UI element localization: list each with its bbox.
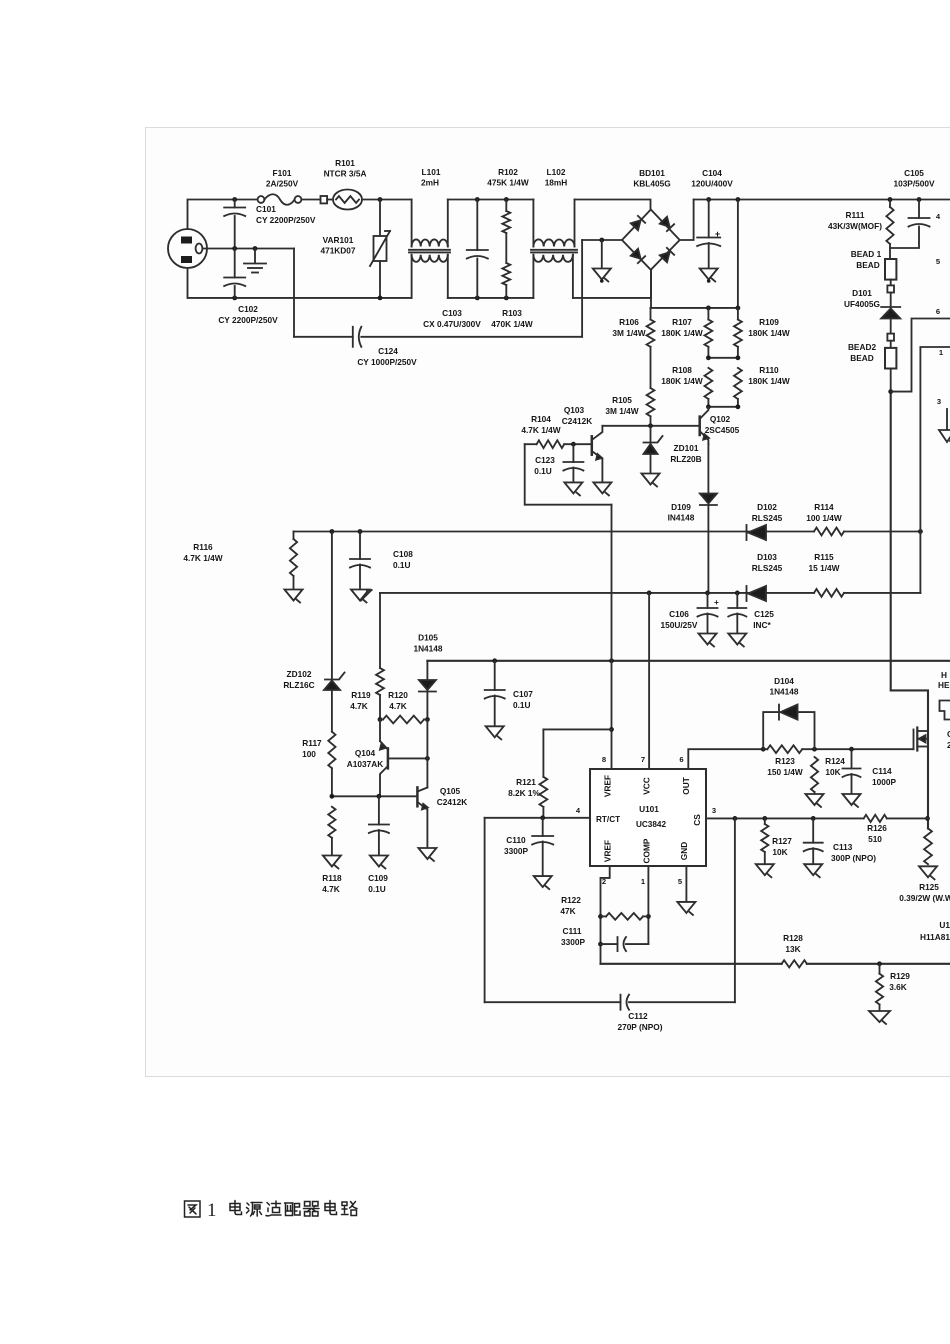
capacitor C109: [378, 796, 380, 824]
svg-text:1N4148: 1N4148: [413, 644, 442, 654]
svg-text:C124: C124: [378, 346, 398, 356]
capacitor C104: [708, 200, 710, 238]
svg-text:HE: HE: [938, 680, 950, 690]
wire VREF pin2 loop: [601, 866, 610, 964]
capacitor C108: [359, 532, 361, 560]
svg-text:VAR101: VAR101: [323, 235, 354, 245]
ferrite bead BEAD2: [890, 341, 892, 348]
svg-text:8.2K 1%: 8.2K 1%: [508, 788, 540, 798]
svg-text:R120: R120: [388, 690, 408, 700]
svg-text:0.1U: 0.1U: [513, 700, 531, 710]
wire plug line mid: [203, 248, 295, 250]
resistor R102: [505, 200, 507, 212]
svg-text:1000P: 1000P: [872, 777, 896, 787]
svg-text:8: 8: [602, 755, 606, 764]
caption: 图 1 电源适配器电路: [185, 1201, 201, 1217]
resistor R111: [889, 200, 891, 208]
svg-text:10K: 10K: [772, 847, 787, 857]
svg-text:Q104: Q104: [355, 748, 376, 758]
svg-text:GND: GND: [679, 842, 689, 860]
transistor Q103: [591, 436, 594, 454]
svg-text:CY 2200P/250V: CY 2200P/250V: [256, 215, 316, 225]
svg-text:C114: C114: [872, 766, 892, 776]
capacitor C101: [234, 200, 236, 208]
bridge diode 3: [631, 249, 641, 259]
wire R106 row: [651, 307, 738, 309]
node C101 bottom: [232, 246, 237, 251]
svg-text:6: 6: [936, 307, 940, 316]
svg-text:D102: D102: [757, 502, 777, 512]
svg-text:C111: C111: [563, 926, 582, 936]
svg-text:BD101: BD101: [639, 168, 665, 178]
svg-text:D103: D103: [757, 552, 777, 562]
svg-text:150 1/4W: 150 1/4W: [767, 767, 803, 777]
svg-text:2SC4505: 2SC4505: [705, 425, 740, 435]
wire COMP pin: [647, 866, 649, 944]
svg-text:3: 3: [712, 806, 716, 815]
wire GND pin: [685, 866, 687, 902]
svg-text:7: 7: [641, 755, 645, 764]
bridge rectifier BD101: [622, 210, 680, 270]
bridge diode 2: [660, 217, 670, 227]
diode D103: [748, 586, 766, 601]
stray mark: [361, 590, 372, 601]
svg-text:470K 1/4W: 470K 1/4W: [491, 319, 533, 329]
wire RT/CT row: [485, 817, 590, 819]
wire R107-R109 mid row: [708, 357, 738, 359]
wire FB row: [601, 963, 950, 965]
capacitor C111: [601, 943, 618, 945]
IC U101 box: [590, 769, 706, 866]
capacitor C107: [494, 661, 496, 690]
resistor R117: [328, 732, 335, 769]
svg-text:4.7K 1/4W: 4.7K 1/4W: [183, 553, 222, 563]
svg-text:C125: C125: [754, 609, 774, 619]
capacitor C110: [542, 818, 544, 836]
wire VCC pin line: [648, 593, 650, 769]
svg-text:3: 3: [937, 397, 941, 406]
capacitor C103: [476, 200, 478, 251]
resistor R118: [328, 807, 335, 838]
scanned schematic area: [146, 128, 950, 1077]
earth ground: [253, 246, 258, 251]
svg-text:R107: R107: [672, 317, 692, 327]
svg-text:UF4005G: UF4005G: [844, 299, 880, 309]
svg-text:CS: CS: [692, 814, 702, 826]
svg-text:RLZ20B: RLZ20B: [670, 454, 701, 464]
svg-text:2mH: 2mH: [421, 178, 439, 188]
svg-text:180K 1/4W: 180K 1/4W: [661, 376, 703, 386]
svg-text:+: +: [715, 229, 720, 239]
wire BEAD rail: [891, 392, 928, 829]
svg-text:4.7K: 4.7K: [322, 884, 340, 894]
svg-text:H11A81: H11A81: [920, 932, 950, 942]
svg-text:C107: C107: [513, 689, 533, 699]
wire R101 to L101: [362, 199, 412, 201]
capacitor C106: [707, 593, 709, 608]
svg-text:C105: C105: [904, 168, 924, 178]
svg-text:CX 0.47U/300V: CX 0.47U/300V: [423, 319, 481, 329]
wire plug bottom: [188, 268, 412, 298]
resistor R115: [814, 589, 844, 597]
svg-text:R123: R123: [775, 756, 795, 766]
svg-text:13K: 13K: [785, 944, 800, 954]
wire pin6 link: [891, 319, 950, 392]
resistor R122: [601, 915, 607, 917]
wire bridge left: [582, 239, 622, 241]
svg-text:1: 1: [207, 1200, 217, 1221]
svg-text:R124: R124: [825, 756, 845, 766]
svg-text:L102: L102: [547, 167, 566, 177]
svg-text:3M 1/4W: 3M 1/4W: [612, 328, 645, 338]
svg-text:0.1U: 0.1U: [534, 466, 552, 476]
svg-text:180K 1/4W: 180K 1/4W: [748, 328, 790, 338]
capacitor C102: [232, 296, 237, 301]
svg-text:R116: R116: [193, 542, 213, 552]
svg-text:R114: R114: [814, 502, 834, 512]
fuse F101: [258, 196, 265, 203]
node C101 top: [232, 197, 237, 202]
svg-text:180K 1/4W: 180K 1/4W: [661, 328, 703, 338]
svg-text:+: +: [714, 598, 719, 607]
pad square 1: [890, 280, 892, 286]
svg-text:100 1/4W: 100 1/4W: [806, 513, 842, 523]
svg-text:Q105: Q105: [440, 786, 461, 796]
wire Q102 emitter: [707, 444, 709, 493]
wire OUT row: [763, 748, 767, 750]
svg-text:C104: C104: [702, 168, 722, 178]
svg-text:2A/250V: 2A/250V: [266, 179, 299, 189]
diode D105: [426, 661, 428, 681]
svg-text:RLZ16C: RLZ16C: [283, 680, 314, 690]
svg-text:BEAD: BEAD: [850, 353, 874, 363]
capacitor C105: [918, 200, 920, 219]
diode D102: [748, 525, 766, 540]
svg-text:6: 6: [679, 755, 683, 764]
resistor R116: [293, 532, 295, 540]
resistor R126: [864, 815, 887, 822]
wire R121 feed: [543, 728, 611, 730]
svg-text:ZD101: ZD101: [674, 443, 699, 453]
svg-text:R110: R110: [759, 365, 779, 375]
resistor R103: [502, 263, 510, 285]
svg-text:R128: R128: [783, 933, 803, 943]
resistor R107: [707, 308, 709, 320]
wire Q103 base row: [602, 425, 699, 427]
ground bridge left: [599, 238, 604, 243]
svg-text:C109: C109: [368, 873, 388, 883]
svg-text:R125: R125: [919, 882, 939, 892]
svg-text:C108: C108: [393, 549, 413, 559]
svg-text:U101: U101: [639, 804, 659, 814]
resistor R125: [925, 816, 930, 821]
wire bridge bottom to R106 row: [650, 270, 652, 308]
svg-text:BEAD 1: BEAD 1: [851, 249, 882, 259]
svg-text:D101: D101: [852, 288, 872, 298]
wire C112 right leg: [734, 818, 736, 1002]
svg-text:Q103: Q103: [564, 405, 585, 415]
resistor R110: [734, 368, 742, 399]
svg-text:C113: C113: [833, 842, 853, 852]
svg-text:C103: C103: [442, 308, 462, 318]
varistor VAR101: [379, 200, 381, 237]
svg-text:OUT: OUT: [681, 777, 691, 795]
svg-text:R109: R109: [759, 317, 779, 327]
wire L102 to bridge bottom: [573, 270, 651, 298]
transistor Q102: [698, 417, 701, 435]
svg-text:4.7K: 4.7K: [350, 701, 368, 711]
wire R119 drop: [379, 593, 381, 668]
zener ZD102: [331, 532, 333, 679]
svg-text:0.1U: 0.1U: [368, 884, 386, 894]
capacitor C113: [812, 818, 814, 842]
wire bridge right to DC rail: [680, 200, 694, 241]
svg-text:F101: F101: [273, 168, 292, 178]
choke L102: [532, 200, 534, 247]
svg-text:VREF: VREF: [603, 840, 613, 862]
svg-text:10K: 10K: [825, 767, 840, 777]
svg-text:Q102: Q102: [710, 414, 731, 424]
resistor R119: [376, 668, 384, 695]
choke L101: [411, 200, 413, 247]
mosfet Q101: [913, 730, 915, 750]
resistor R120: [378, 717, 383, 722]
svg-text:INC*: INC*: [753, 620, 771, 630]
svg-text:D109: D109: [671, 502, 691, 512]
svg-text:3M 1/4W: 3M 1/4W: [605, 406, 638, 416]
pin 3 arrow: [946, 409, 948, 430]
resistor R105: [647, 388, 655, 416]
svg-text:150U/25V: 150U/25V: [661, 620, 698, 630]
thermistor R101: [321, 196, 328, 203]
svg-text:1N4148: 1N4148: [769, 687, 798, 697]
svg-text:120U/400V: 120U/400V: [691, 179, 733, 189]
wire C124 drop: [293, 249, 295, 337]
svg-text:100: 100: [302, 749, 316, 759]
svg-text:270P (NPO): 270P (NPO): [617, 1022, 662, 1032]
zener ZD101: [650, 426, 652, 443]
svg-text:RT/CT: RT/CT: [596, 815, 620, 824]
capacitor C112: [485, 1001, 621, 1003]
svg-text:RLS245: RLS245: [752, 513, 783, 523]
svg-text:103P/500V: 103P/500V: [893, 179, 935, 189]
svg-text:COMP: COMP: [642, 838, 652, 863]
wire VCC row 531: [294, 531, 815, 533]
wire D105 to Q105 collector: [426, 720, 428, 788]
svg-text:BEAD: BEAD: [856, 260, 880, 270]
wire plug top to fuse: [188, 200, 259, 230]
svg-text:R106: R106: [619, 317, 639, 327]
svg-text:475K 1/4W: 475K 1/4W: [487, 178, 529, 188]
svg-text:R108: R108: [672, 365, 692, 375]
resistor R114: [814, 528, 844, 536]
svg-text:BEAD2: BEAD2: [848, 342, 877, 352]
wire DC rail top: [694, 199, 950, 201]
svg-text:RLS245: RLS245: [752, 563, 783, 573]
capacitor C123: [572, 444, 574, 462]
svg-text:510: 510: [868, 834, 882, 844]
AC plug P101: [168, 229, 207, 268]
bridge diode 1: [631, 220, 641, 230]
svg-text:R103: R103: [502, 308, 522, 318]
capacitor C124: [294, 336, 353, 338]
svg-text:IN4148: IN4148: [668, 513, 695, 523]
svg-text:VREF: VREF: [603, 775, 613, 797]
svg-text:C112: C112: [628, 1011, 648, 1021]
svg-text:NTCR 3/5A: NTCR 3/5A: [324, 169, 367, 179]
svg-text:UC3842: UC3842: [636, 820, 666, 829]
svg-text:18mH: 18mH: [545, 178, 568, 188]
resistor R124: [811, 757, 818, 792]
wire L101 to C103 bottom: [448, 297, 534, 299]
svg-text:R126: R126: [867, 823, 887, 833]
svg-text:C101: C101: [256, 204, 276, 214]
svg-text:R129: R129: [890, 971, 910, 981]
svg-text:D104: D104: [774, 676, 794, 686]
svg-text:U1: U1: [939, 920, 950, 930]
bridge diode 4: [660, 252, 670, 262]
capacitor C114: [851, 749, 853, 768]
svg-text:15 1/4W: 15 1/4W: [809, 563, 840, 573]
resistor R106: [650, 308, 652, 320]
svg-text:0.1U: 0.1U: [393, 560, 411, 570]
wire R104 loop to VREF line: [525, 444, 612, 505]
svg-text:0.39/2W (W.W: 0.39/2W (W.W: [899, 893, 950, 903]
svg-text:3300P: 3300P: [561, 937, 585, 947]
resistor R109: [737, 308, 739, 320]
svg-text:C110: C110: [506, 835, 526, 845]
svg-text:R101: R101: [335, 158, 355, 168]
svg-text:VCC: VCC: [642, 777, 652, 795]
svg-text:D105: D105: [418, 633, 438, 643]
resistor R128: [782, 960, 807, 967]
transistor Q104: [379, 720, 381, 742]
svg-text:R119: R119: [351, 690, 371, 700]
resistor R121: [542, 729, 544, 776]
svg-text:R127: R127: [772, 836, 792, 846]
wire fuse to R101: [301, 199, 320, 201]
svg-text:R115: R115: [814, 552, 834, 562]
wire C124 to bridge ground: [581, 240, 583, 337]
svg-text:3300P: 3300P: [504, 846, 528, 856]
svg-text:C102: C102: [238, 304, 258, 314]
wire VREF line: [611, 505, 613, 769]
svg-text:C2412K: C2412K: [437, 797, 467, 807]
svg-text:C106: C106: [669, 609, 689, 619]
svg-text:KBL405G: KBL405G: [633, 179, 670, 189]
svg-text:R105: R105: [612, 395, 632, 405]
svg-text:R121: R121: [516, 777, 536, 787]
svg-text:R122: R122: [561, 895, 581, 905]
svg-text:C2412K: C2412K: [562, 416, 592, 426]
svg-text:C123: C123: [535, 455, 555, 465]
svg-text:R102: R102: [498, 167, 518, 177]
wire OUT pin: [688, 749, 763, 769]
wire VCC row 593: [380, 592, 814, 594]
svg-text:R111: R111: [846, 210, 865, 220]
svg-text:R104: R104: [531, 414, 551, 424]
resistor R129: [879, 964, 881, 974]
wire L102 to bridge top: [575, 200, 651, 210]
heatsink symbol: [940, 701, 950, 720]
svg-text:R117: R117: [302, 738, 322, 748]
svg-text:ZD102: ZD102: [287, 669, 312, 679]
wire CS row: [706, 817, 864, 819]
resistor R108: [705, 368, 713, 399]
svg-text:L101: L101: [422, 167, 441, 177]
svg-text:A1037AK: A1037AK: [347, 759, 383, 769]
svg-text:4.7K 1/4W: 4.7K 1/4W: [521, 425, 560, 435]
wire VCC rail: [427, 660, 950, 662]
transistor Q105: [416, 787, 419, 806]
resistor R127: [764, 818, 766, 824]
svg-text:471KD07: 471KD07: [320, 246, 355, 256]
svg-text:300P (NPO): 300P (NPO): [831, 853, 876, 863]
svg-text:3.6K: 3.6K: [889, 982, 907, 992]
svg-text:47K: 47K: [560, 906, 575, 916]
wire R108-R110 bottom row: [708, 406, 738, 408]
wire Q105 base row: [332, 795, 418, 797]
svg-text:CY 2200P/250V: CY 2200P/250V: [218, 315, 278, 325]
capacitor C125: [736, 593, 738, 608]
wire L101 to C103 top: [448, 199, 534, 201]
svg-text:H: H: [941, 670, 947, 680]
svg-text:CY 1000P/250V: CY 1000P/250V: [357, 357, 417, 367]
ferrite bead BEAD1: [885, 259, 896, 280]
pad square 2: [887, 334, 894, 341]
resistor R104: [525, 443, 537, 445]
svg-text:4.7K: 4.7K: [389, 701, 407, 711]
diode D104 loop: [763, 712, 779, 749]
wire C112 left leg: [484, 818, 486, 1002]
diode D101: [890, 293, 892, 307]
svg-text:43K/3W(MOF): 43K/3W(MOF): [828, 221, 882, 231]
resistor R123: [767, 745, 802, 753]
svg-text:R118: R118: [322, 873, 342, 883]
wire transformer rail: [920, 347, 950, 593]
svg-text:180K 1/4W: 180K 1/4W: [748, 376, 790, 386]
diode D109: [700, 494, 717, 504]
